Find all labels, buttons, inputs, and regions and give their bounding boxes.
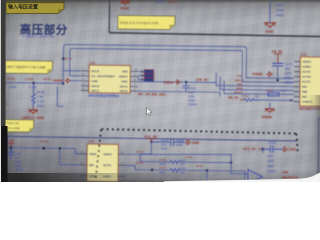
junction near U42 [290, 99, 292, 101]
block border horizontal [109, 33, 320, 37]
off-page flag SPI_DOUT [138, 77, 154, 82]
U44 pin numbers [81, 150, 123, 166]
note box formula bottom left [3, 120, 33, 132]
junction at C373 [185, 81, 187, 83]
dashed box top edge [102, 129, 297, 133]
wire resistor rail left [5, 82, 63, 85]
note box formula top [118, 15, 175, 29]
off-page flag SPI_CS [138, 74, 154, 78]
ground GNDM bottom right [265, 109, 275, 113]
wire from VCC node down to R736 row [140, 142, 151, 162]
off-page flag SPI_SCLK [138, 70, 154, 74]
wire VDD to VR_5V [138, 81, 216, 84]
U40 left pin stubs [81, 71, 138, 91]
junction on rail [32, 82, 34, 84]
capacitor C374 [151, 138, 185, 146]
buffer chip U42 [300, 53, 320, 106]
capacitor C373 [182, 82, 189, 91]
block border vertical [108, 0, 110, 32]
resistor R739 zigzag vertical [31, 93, 35, 107]
junction node [62, 58, 65, 61]
wire VDDO long to right [126, 153, 231, 163]
ground GND top middle [121, 1, 130, 4]
capacitor C377 [7, 148, 14, 159]
capacitor C375 [261, 145, 282, 153]
title banner top left [6, 1, 64, 14]
dashed box left edge [95, 129, 101, 181]
power GND arrow mid bottom [185, 140, 190, 145]
wire to GNDM bottom right [269, 103, 271, 108]
ground LINEFLP_GND symbol [28, 107, 38, 113]
dashed box right edge [296, 134, 298, 154]
junction E740 [42, 147, 45, 150]
wire down to divider resistor [32, 83, 34, 93]
U42 pin stubs [294, 62, 300, 102]
op-amp U43 [248, 170, 263, 184]
wire L corner left [57, 87, 64, 107]
schematic layer [0, 0, 320, 182]
wire R736 to corner [180, 161, 231, 164]
ground GND top right [264, 23, 277, 28]
junction below C372 [276, 79, 278, 81]
right edge shading [306, 95, 320, 180]
power GND arrow bottom right [282, 147, 287, 152]
junction on rail right [62, 82, 64, 84]
wire row to R736 [140, 161, 170, 163]
junction VR_5V [9, 146, 12, 149]
pin numbers U40 [82, 67, 138, 91]
isolator chip U44 [87, 140, 119, 182]
junction rail branch [59, 147, 61, 149]
capacitor C372 [272, 63, 283, 66]
mouse cursor [147, 108, 152, 116]
junction below VCC_5V [150, 141, 152, 143]
box border lower region [6, 136, 298, 183]
photo white bottom-right corner [0, 0, 320, 182]
wires into U40 left [63, 59, 81, 84]
wire top right [269, 1, 271, 22]
wire fan corners to U42 rows [216, 71, 294, 95]
power GNDM arrow right [266, 72, 272, 77]
wire bottom rail [11, 148, 88, 154]
note box formula left [5, 61, 52, 74]
net labels CS SCLK SDI SDO DOUT [234, 74, 244, 94]
U44 pin stubs [79, 154, 126, 177]
wire ADC2 row [138, 91, 220, 97]
wire row to R737 [126, 165, 170, 170]
wire rail branch to INP [60, 148, 80, 164]
wire from VCC junction down [262, 149, 264, 153]
bottom sheet edge dark line [0, 173, 320, 182]
power GNDM arrow mid [175, 80, 181, 84]
wire pair long loop [63, 45, 246, 76]
wire R737 right [180, 170, 248, 180]
left bezel dark strip [0, 0, 6, 182]
power GNDM arrow at U40 [65, 78, 71, 82]
op-amp/ADC chip U40 [89, 61, 130, 93]
wire right edge vertical [317, 117, 320, 184]
